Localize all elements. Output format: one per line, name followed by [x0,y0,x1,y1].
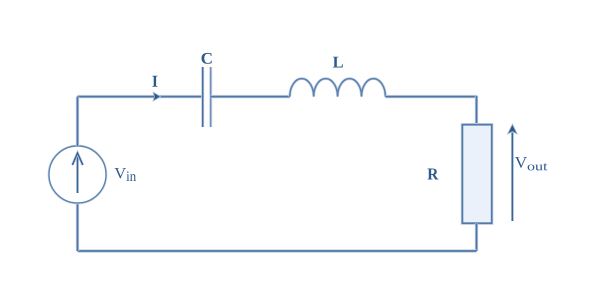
inductor L [290,79,386,97]
capacitor C right plate [209,67,212,127]
wire left top vertical [76,97,79,147]
label Vin [115,168,137,181]
wire left bottom vertical [76,203,79,251]
label Vout [515,157,548,170]
resistor R body [462,125,491,224]
wire resistor bottom to corner [475,223,478,251]
wire top-left horizontal [78,95,203,98]
label L [333,57,343,68]
source arrow shaft [76,154,79,193]
current arrowhead I [153,92,161,101]
source arrowhead [72,153,82,165]
label I [152,76,157,87]
label C [202,53,212,64]
Vout arrow shaft [511,133,514,222]
wire right side down to resistor [475,96,478,125]
wire bottom horizontal [78,249,477,252]
source Vin circle [49,146,106,203]
label R [428,169,439,180]
wire capacitor to inductor [211,95,290,98]
wire inductor to top-right corner [385,95,476,98]
Vout arrowhead [508,124,518,134]
capacitor C left plate [201,67,204,127]
